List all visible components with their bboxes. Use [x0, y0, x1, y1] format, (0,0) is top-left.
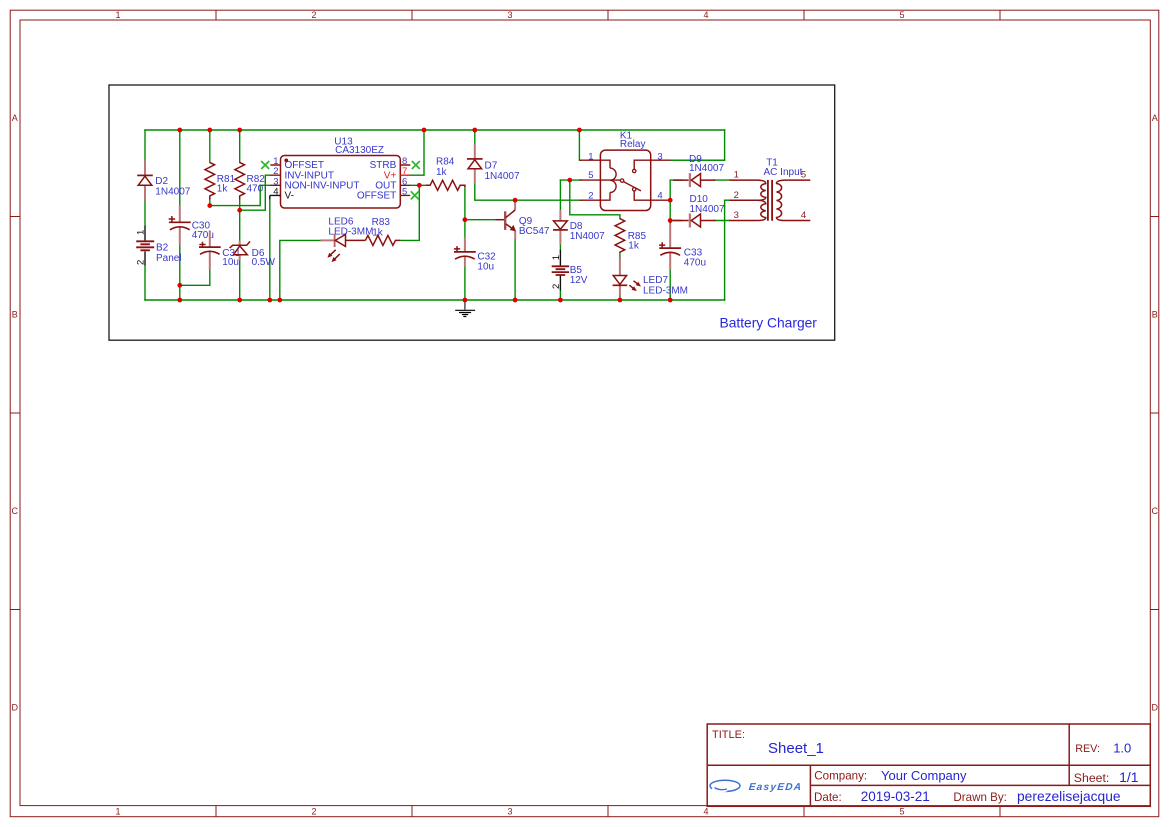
- svg-text:5: 5: [801, 170, 806, 181]
- svg-text:D7: D7: [485, 160, 498, 171]
- svg-text:5: 5: [588, 170, 593, 181]
- svg-text:Panel: Panel: [156, 253, 182, 264]
- svg-text:A: A: [1152, 113, 1158, 123]
- svg-text:10u: 10u: [477, 262, 494, 273]
- wire OUT node to R84: [410, 184, 426, 186]
- svg-text:470u: 470u: [684, 258, 706, 269]
- wire left branch top: [144, 130, 146, 160]
- wire LED7 to rail: [619, 295, 621, 300]
- wire jog C31 bottom to C30 branch: [180, 270, 210, 286]
- wire relay pin4 node up to D9: [670, 180, 681, 200]
- wire R82 node down to D6: [239, 210, 241, 240]
- junction dot Q9 base node: [463, 217, 468, 222]
- circuit outline box: [109, 85, 835, 340]
- wire D2 to B2: [144, 201, 146, 226]
- svg-text:1N4007: 1N4007: [689, 163, 724, 174]
- svg-text:2: 2: [136, 260, 147, 265]
- wire D8 to B5: [559, 245, 561, 251]
- svg-text:C: C: [12, 506, 19, 516]
- svg-text:Relay: Relay: [620, 139, 646, 150]
- capacitor C32 10u: [454, 237, 496, 273]
- svg-text:1k: 1k: [217, 184, 229, 195]
- wire LED6 branch left and down to rail: [280, 240, 321, 300]
- title block: [707, 724, 1150, 806]
- wire D9 to T1 pin1: [714, 179, 729, 181]
- relay K1: [579, 130, 670, 210]
- svg-text:3: 3: [507, 10, 512, 20]
- wire top supply rail: [145, 129, 725, 131]
- svg-text:1N4007: 1N4007: [570, 231, 605, 242]
- EasyEDA logo: [710, 780, 803, 793]
- wire C30 branch top: [179, 130, 181, 206]
- battery B5 12V: [551, 250, 588, 290]
- no-connect X on U13 pin5: [411, 191, 419, 199]
- junction dot OUT node: [417, 183, 422, 188]
- wire D6 to bottom rail: [239, 260, 241, 300]
- wire relay pin5 row: [560, 179, 581, 181]
- capacitor C31 10u: [199, 230, 241, 269]
- svg-text:5: 5: [402, 186, 407, 197]
- junction dots top rail: [177, 128, 581, 133]
- svg-text:1: 1: [551, 255, 562, 260]
- wire B5 to rail: [559, 290, 561, 300]
- junction dot C30 jog node: [177, 283, 182, 288]
- wire relay pin3 to right drop: [671, 159, 725, 161]
- diode D8 1N4007: [553, 210, 605, 245]
- wire pin5 row down to D8: [559, 180, 561, 210]
- wire Q9 emitter to rail: [514, 240, 516, 301]
- wire T1 pin2 to ground rail: [725, 200, 730, 300]
- ruler column numbers top: [115, 10, 904, 20]
- svg-text:5: 5: [899, 807, 904, 817]
- op-amp U13 CA3130EZ: [270, 136, 411, 208]
- svg-text:B: B: [12, 310, 18, 320]
- wire D7 branch top: [474, 130, 476, 144]
- svg-text:D2: D2: [155, 176, 168, 187]
- svg-text:OFFSET: OFFSET: [357, 191, 396, 202]
- resistor R84 1k: [426, 157, 465, 191]
- junction dots bottom rail: [177, 298, 672, 303]
- wire base node to Q9: [465, 219, 496, 221]
- svg-text:B: B: [1152, 310, 1158, 320]
- svg-text:D: D: [12, 703, 19, 713]
- wire node R81 to U13 pin3: [210, 185, 271, 205]
- svg-text:Sheet:: Sheet:: [1074, 771, 1110, 785]
- svg-text:CA3130EZ: CA3130EZ: [335, 145, 384, 156]
- svg-text:3: 3: [657, 151, 662, 162]
- ruler row letters: [12, 113, 1159, 713]
- battery B2 Panel: [136, 226, 182, 266]
- svg-text:Company:: Company:: [814, 770, 867, 783]
- wire pin4 node down to D10 node: [670, 200, 681, 220]
- svg-text:BC547: BC547: [519, 226, 550, 237]
- no-connect X on U13 pin8: [412, 161, 420, 169]
- resistor R83 1k: [365, 217, 400, 245]
- svg-text:5: 5: [899, 10, 904, 20]
- svg-text:470: 470: [247, 184, 264, 195]
- wire R85 to LED7: [619, 253, 621, 259]
- wire bottom ground rail: [145, 299, 725, 301]
- wire R82 branch top: [239, 130, 241, 162]
- svg-text:0.5W: 0.5W: [252, 257, 276, 268]
- no-connect X on U13 pin1: [261, 161, 269, 169]
- svg-text:1: 1: [115, 10, 120, 20]
- LED LED6 LED-3MM: [320, 216, 373, 262]
- svg-text:1N4007: 1N4007: [485, 171, 520, 182]
- wire R82 bottom node: [239, 200, 241, 211]
- svg-text:R84: R84: [436, 157, 455, 168]
- svg-text:Your Company: Your Company: [881, 768, 967, 783]
- wire C33 bottom to rail: [669, 270, 671, 300]
- svg-text:TITLE:: TITLE:: [712, 729, 745, 741]
- svg-text:4: 4: [703, 807, 708, 817]
- svg-text:NON-INV-INPUT: NON-INV-INPUT: [285, 181, 360, 192]
- diode D2 1N4007: [137, 160, 191, 200]
- junction dot R81 node: [207, 203, 212, 208]
- wire B2 to bottom rail: [144, 265, 146, 300]
- ruler column numbers bottom: [115, 807, 904, 817]
- wire pin5 node down to R85: [570, 180, 620, 219]
- resistor R85 1k: [615, 219, 646, 253]
- svg-text:4: 4: [801, 210, 806, 221]
- svg-text:1: 1: [734, 170, 739, 181]
- wire node R82 to U13 pin2: [240, 175, 271, 210]
- svg-text:1N4007: 1N4007: [155, 186, 190, 197]
- wire R81 branch top: [209, 130, 211, 162]
- junction dot relay pin5 node: [567, 178, 572, 183]
- diode D10 1N4007: [673, 194, 725, 228]
- wire D7 bottom to relay pin2 row: [475, 184, 581, 200]
- zener diode D6 0.5W: [230, 241, 276, 268]
- wire D10 node down to C33: [669, 221, 671, 225]
- svg-text:1: 1: [115, 807, 120, 817]
- junction dot Q9 collector node: [513, 198, 518, 203]
- svg-text:4: 4: [657, 191, 662, 202]
- svg-text:AC Input: AC Input: [764, 167, 803, 178]
- svg-text:1k: 1k: [628, 240, 640, 251]
- wire V+ pin to top rail: [410, 130, 424, 175]
- svg-text:1: 1: [588, 151, 593, 162]
- svg-text:2: 2: [311, 807, 316, 817]
- svg-text:Drawn By:: Drawn By:: [953, 791, 1006, 804]
- capacitor C33 470u: [659, 224, 706, 270]
- wire top rail right drop to relay pin3: [671, 130, 725, 160]
- junction dot relay pin4 node: [668, 198, 673, 203]
- wire R83 right up to OUT node: [400, 185, 419, 240]
- resistor R81 1k: [205, 162, 236, 199]
- svg-text:Date:: Date:: [814, 791, 842, 804]
- svg-text:LED-3MM: LED-3MM: [643, 285, 688, 296]
- svg-text:4: 4: [273, 186, 278, 197]
- svg-text:2019-03-21: 2019-03-21: [861, 789, 930, 804]
- svg-text:2: 2: [551, 284, 562, 289]
- svg-text:REV:: REV:: [1075, 743, 1100, 755]
- svg-text:A: A: [12, 113, 18, 123]
- diode D9 1N4007: [673, 154, 724, 187]
- resistor R82 470: [235, 162, 265, 199]
- svg-text:4: 4: [703, 10, 708, 20]
- svg-text:D: D: [1152, 703, 1159, 713]
- svg-text:B2: B2: [156, 243, 169, 254]
- ground symbol: [455, 300, 475, 317]
- junction dot D10 node: [668, 218, 673, 223]
- svg-text:3: 3: [734, 210, 739, 221]
- LED LED7 LED-3MM: [613, 258, 688, 296]
- svg-text:perezelisejacque: perezelisejacque: [1017, 789, 1121, 804]
- svg-text:12V: 12V: [570, 275, 588, 286]
- wire C30 bottom to rail: [179, 245, 181, 300]
- svg-text:EasyEDA: EasyEDA: [748, 782, 803, 793]
- svg-text:1: 1: [136, 230, 147, 235]
- transistor Q9 BC547: [496, 202, 550, 240]
- svg-text:V-: V-: [285, 191, 294, 202]
- svg-text:2: 2: [588, 191, 593, 202]
- wire C32 bottom to rail: [464, 267, 466, 301]
- svg-text:1.0: 1.0: [1113, 740, 1131, 755]
- svg-text:2: 2: [311, 10, 316, 20]
- svg-text:C: C: [1152, 506, 1159, 516]
- svg-text:Sheet_1: Sheet_1: [768, 740, 824, 757]
- wire V- net vertical to rail: [269, 199, 271, 300]
- wire base node down to C32: [464, 220, 466, 237]
- svg-text:10u: 10u: [222, 257, 239, 268]
- svg-text:1/1: 1/1: [1119, 769, 1139, 785]
- transformer T1 AC Input: [729, 158, 810, 221]
- svg-text:Battery Charger: Battery Charger: [720, 315, 818, 330]
- svg-text:1k: 1k: [436, 167, 448, 178]
- wire top rail drop to relay pin1: [579, 130, 581, 160]
- capacitor C30 470u: [169, 206, 214, 245]
- svg-text:1N4007: 1N4007: [690, 204, 725, 215]
- svg-text:3: 3: [507, 807, 512, 817]
- junction dot R82 node: [237, 208, 242, 213]
- svg-text:2: 2: [734, 190, 739, 201]
- diode D7 1N4007: [467, 144, 520, 185]
- wire R81 bottom node: [209, 200, 211, 206]
- wire R84 right down to base node: [464, 187, 466, 220]
- wire D10 to T1 pin3: [714, 220, 729, 222]
